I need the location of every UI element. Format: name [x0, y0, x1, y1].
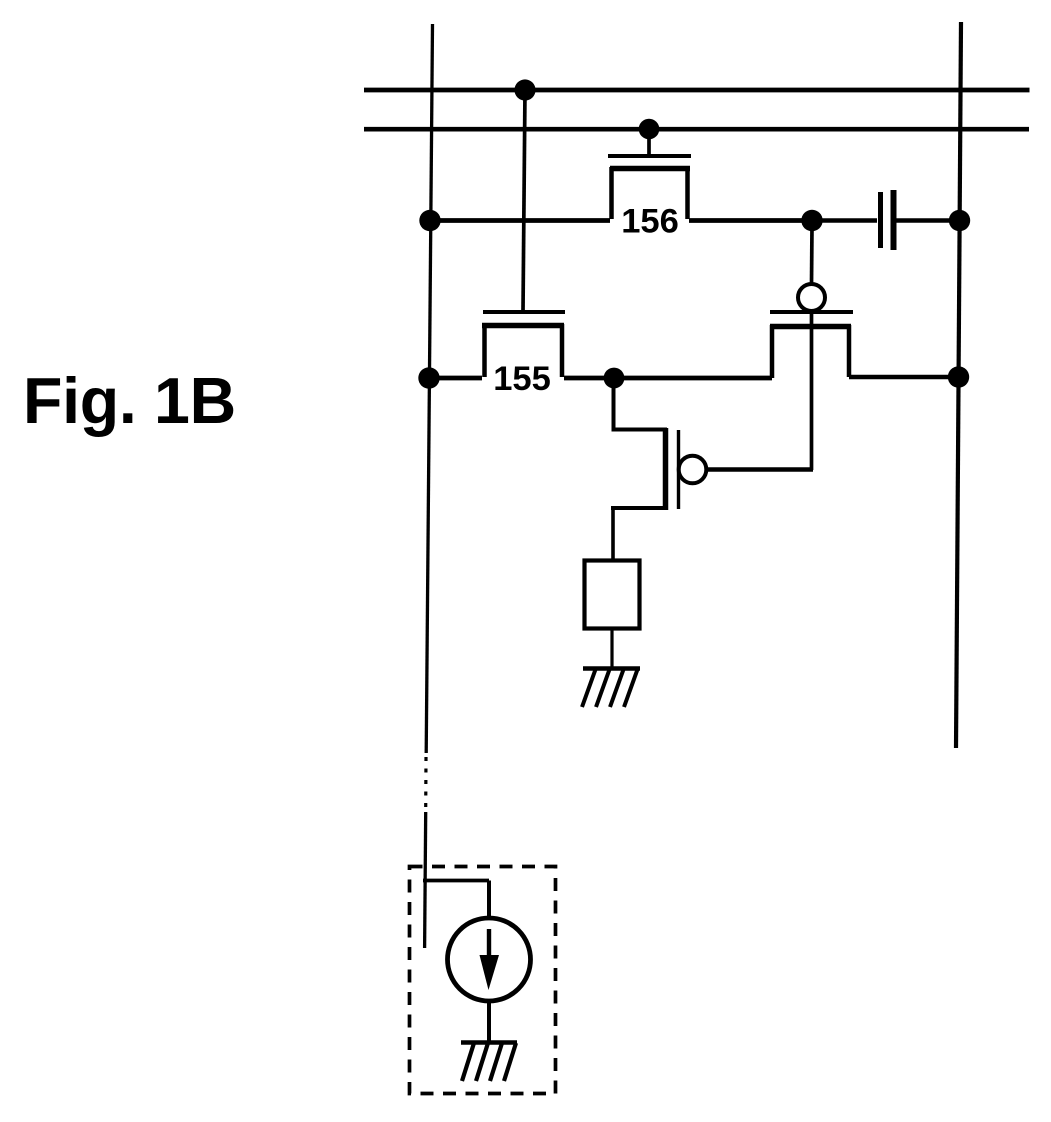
wire: lower p-transistor gate bubble to vertical gate net [707, 467, 814, 471]
node: junction dot drain of 156 / capacitor / gates [801, 210, 822, 231]
current source I1 (circle with down arrow) [448, 918, 531, 1001]
current source block (dashed box) [410, 867, 556, 1094]
node: junction dot on bus 1 at gate line of 155 [514, 79, 535, 100]
wire: drain of 156 to capacitor node [689, 218, 812, 223]
node: junction dot left line / source of 155 [418, 367, 439, 388]
node: junction dot right column at mid wire [948, 366, 969, 387]
node: junction dot on bus 2 at gate of 156 [639, 119, 660, 140]
wire: left vertical column line (upper solid part) [426, 24, 432, 753]
resistor (box element) [585, 561, 640, 629]
transistor (p-type, upper right, gate up with bubble) [770, 227, 853, 470]
transistor (p-type, lower, sideways with bubble) [611, 377, 706, 561]
wire: upper p-transistor drain to right column [849, 375, 959, 380]
wire: gate line of transistor 155 from bus 1 [523, 90, 525, 311]
wire: horizontal bus line 2 [364, 127, 1029, 132]
transistor 155 (n-type, gate up) [482, 312, 565, 377]
svg-text:155: 155 [493, 360, 551, 398]
node: junction dot capacitor right on right column [949, 210, 970, 231]
svg-text:156: 156 [621, 203, 679, 241]
wire: right vertical column line [956, 22, 961, 748]
wire: source of 155 to left column [427, 376, 482, 381]
node: junction dot drain of 155 [604, 368, 625, 389]
capacitor (storage capacitor) [812, 190, 960, 250]
transistor 156 (n-type, gate up) [608, 133, 691, 219]
wire: horizontal bus line 1 (top) [364, 88, 1030, 93]
wire: branch from column line to current source [423, 881, 489, 920]
wire: drain of 155 to upper p-transistor source [564, 376, 772, 381]
ground (below current source) [461, 1043, 517, 1082]
wire: resistor to ground [610, 628, 613, 667]
node: junction dot left line / source of 156 [419, 210, 440, 231]
ground (below resistor) [582, 668, 640, 707]
wire: current source to ground [487, 1000, 491, 1042]
wire: left vertical column line (lower solid part into current-source box) [425, 812, 426, 948]
svg-text:Fig. 1B: Fig. 1B [23, 365, 236, 437]
wire: left vertical column line (dotted break) [424, 757, 427, 810]
wire: source of 156 to left column [428, 218, 610, 223]
